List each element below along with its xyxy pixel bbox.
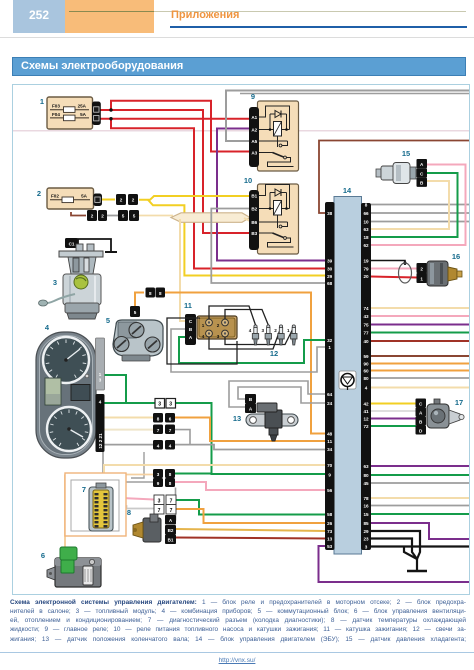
svg-text:68: 68 <box>327 281 333 286</box>
wire gray coolant sensor A stub <box>175 488 177 521</box>
wire gray crank sensor pin A loop to ECU pin 64 <box>229 381 325 407</box>
wire gray relay K10 pin B2 to ECU pin 68 <box>211 209 325 284</box>
screw top of block 5 <box>129 323 144 338</box>
svg-text:2: 2 <box>120 198 123 203</box>
AC pressure sensor 15 <box>376 169 382 177</box>
svg-text:63: 63 <box>363 464 369 469</box>
ECU logo icon <box>339 371 356 389</box>
svg-text:9: 9 <box>328 472 331 477</box>
fuse box 2 (cabin) <box>47 188 94 209</box>
diagnostic connector 7 inner box <box>71 480 119 531</box>
svg-text:C1: C1 <box>69 242 75 247</box>
connector pair 4-4 <box>153 440 163 450</box>
cluster LCD left <box>45 378 61 405</box>
wire purple ECU pin 12 to valve pin B <box>371 418 416 420</box>
relay K10 coil <box>259 208 274 210</box>
svg-text:25A: 25A <box>78 104 87 109</box>
wire black ECU pin 19 shield drain to sensor 16 <box>371 261 405 266</box>
connector pair 5-5 <box>118 210 128 221</box>
AC sensor 15 pins <box>417 159 428 168</box>
HV wire coil left detour <box>167 318 237 364</box>
svg-text:58: 58 <box>327 512 333 517</box>
relay K9 diode <box>270 113 287 115</box>
svg-text:A3: A3 <box>251 150 257 155</box>
wire black ECU pin 29b to ground <box>371 531 420 559</box>
svg-text:79: 79 <box>363 266 369 271</box>
ECU 14 right pin strip <box>361 203 371 550</box>
svg-text:90: 90 <box>363 361 369 366</box>
spark plugs 12 <box>254 325 257 328</box>
wire gray diagnostic connector to pair 7-7w <box>108 506 154 509</box>
HV wire coil tower 1 to spark plug 4 <box>209 306 256 325</box>
svg-text:74: 74 <box>363 306 369 311</box>
tachometer gauge <box>43 337 89 383</box>
svg-text:30: 30 <box>327 266 333 271</box>
svg-text:7: 7 <box>82 485 86 494</box>
svg-text:48: 48 <box>327 431 333 436</box>
relay K10 input loop <box>259 185 290 209</box>
wire pink ECU pin 43 to right edge <box>371 315 469 317</box>
relay K9 input loop <box>259 106 290 130</box>
wire beige ECU pin 74 to right edge <box>371 307 469 309</box>
wire red ECU pin 20 to sensor 16 pin 1 <box>371 277 417 278</box>
wire green ECU pin 77 to right edge <box>371 332 469 334</box>
wire orange connector 7-7w to ECU pin 26 <box>176 509 325 523</box>
wire red F03 feed to relay K9 pin A3 <box>111 101 258 152</box>
connector pair 3-8 <box>153 469 163 478</box>
svg-text:77: 77 <box>363 330 369 335</box>
svg-text:3: 3 <box>217 334 220 339</box>
svg-text:80: 80 <box>363 473 369 478</box>
svg-text:3: 3 <box>157 472 160 477</box>
svg-text:B6: B6 <box>251 220 257 225</box>
relay K10 diode <box>270 192 287 194</box>
svg-text:2: 2 <box>217 323 220 328</box>
wire gray ECU pin 10 to right edge <box>371 221 469 223</box>
connector pair 3-3 <box>155 399 165 409</box>
wire orange ECU pin 60 to right edge <box>371 370 469 372</box>
wire green ECU pin 18 loop to AC sensor pin C <box>371 173 458 237</box>
svg-text:1: 1 <box>40 97 44 106</box>
diagnostic connector 7 body <box>89 487 113 531</box>
svg-text:2: 2 <box>132 198 135 203</box>
wire beige ECU pin 63 loop to AC sensor pin B <box>371 181 449 229</box>
svg-text:8: 8 <box>149 291 152 296</box>
svg-text:3: 3 <box>365 544 368 549</box>
svg-text:85: 85 <box>363 521 369 526</box>
svg-text:12: 12 <box>363 416 369 421</box>
connector pair 7-7 white <box>154 505 164 515</box>
wire gray cluster bottom to connector 9-8 <box>103 452 153 482</box>
svg-text:13: 13 <box>233 414 241 423</box>
svg-text:7: 7 <box>170 498 173 504</box>
wire beige cluster to connector 8-6 <box>104 417 153 419</box>
svg-text:B2: B2 <box>168 528 174 533</box>
coolant temperature sensor 8 <box>143 518 161 542</box>
svg-text:4: 4 <box>99 400 102 405</box>
wire gray ignition coil pin B to ECU pin 1 <box>171 329 325 372</box>
page number box 252 <box>13 0 65 33</box>
wire pink ECU pin 62 loop to AC sensor pin A <box>371 165 466 246</box>
svg-text:4: 4 <box>365 385 368 390</box>
svg-text:20: 20 <box>363 274 369 279</box>
wire black ECU pin 3 to right edge and ground <box>371 545 469 547</box>
svg-text:2: 2 <box>37 189 41 198</box>
svg-text:5A: 5A <box>80 112 87 117</box>
svg-text:41: 41 <box>363 409 369 414</box>
svg-text:43: 43 <box>363 314 369 319</box>
svg-text:7: 7 <box>157 428 160 433</box>
svg-text:8: 8 <box>157 416 160 421</box>
wire red F04 to relay K9 pin A1 <box>99 118 258 120</box>
svg-text:2: 2 <box>101 214 104 219</box>
wire gray connector 4-4 to ECU pin 34 <box>175 445 325 450</box>
svg-text:7: 7 <box>158 508 161 514</box>
wire green ECU pin 80b to right edge <box>371 474 469 476</box>
shield ellipse around sensor 16 pair <box>399 263 412 283</box>
svg-text:23: 23 <box>363 536 369 541</box>
svg-text:A5: A5 <box>251 139 257 144</box>
wire green ignition coil pin A to ECU pin 32 <box>179 337 325 363</box>
svg-text:6: 6 <box>169 416 172 421</box>
svg-text:5: 5 <box>122 214 125 219</box>
wire pink diagnostic connector to connector 3-7 <box>112 498 154 500</box>
svg-text:56: 56 <box>327 488 333 493</box>
wire purple ECU pin 85 jog to right edge <box>371 523 469 539</box>
svg-text:40: 40 <box>363 339 369 344</box>
wire gray ECU pin 8 to right edge <box>371 204 469 206</box>
svg-text:5: 5 <box>134 310 137 315</box>
connector pair 7-7 <box>153 425 163 435</box>
svg-text:3: 3 <box>53 278 57 287</box>
svg-text:16: 16 <box>452 252 460 261</box>
svg-text:4: 4 <box>169 443 172 448</box>
relay K9 box <box>258 101 299 171</box>
svg-text:53: 53 <box>327 544 333 549</box>
connector pair 8-8 on orange wire <box>146 288 156 298</box>
svg-text:14: 14 <box>343 186 352 195</box>
svg-text:8: 8 <box>169 481 172 486</box>
svg-text:32: 32 <box>327 338 333 343</box>
wire green cluster tab 13 <box>105 374 128 376</box>
connector pair 2-2 on brown wire <box>87 210 97 221</box>
orange header bar <box>65 0 154 33</box>
svg-text:10: 10 <box>363 219 369 224</box>
fuel module 3 <box>76 244 83 253</box>
cluster warning lamp <box>85 374 88 377</box>
relay K10 pin strip <box>249 190 259 250</box>
HV wire coil tower 3 to spark plug 1 <box>225 327 294 345</box>
relay K9 coil <box>259 129 274 131</box>
fuse block 1 (engine bay) <box>47 97 93 129</box>
svg-text:26: 26 <box>327 521 333 526</box>
svg-text:1: 1 <box>328 345 331 350</box>
HV wire coil tower 2 to spark plug 3 <box>225 310 268 326</box>
diagram frame <box>13 85 470 595</box>
svg-text:16: 16 <box>363 503 369 508</box>
valve 17 body <box>434 399 440 406</box>
wire green connector pair row to junction <box>175 473 212 475</box>
svg-text:13: 13 <box>327 536 333 541</box>
wire brown ECU pin 38 loop to right edge <box>319 141 469 214</box>
svg-text:78: 78 <box>363 496 369 501</box>
wire red F04 branch to ECU pin 30 <box>111 119 325 269</box>
wire cream cluster to connector 7-7 <box>104 429 153 431</box>
svg-text:2: 2 <box>420 266 423 271</box>
svg-text:F03: F03 <box>52 104 60 109</box>
svg-text:3: 3 <box>169 402 172 408</box>
fuse block 1 output tabs <box>92 102 101 126</box>
ECU 14 body <box>334 197 362 555</box>
wire pink connector 9-8 to ECU pin 56 <box>175 482 325 490</box>
connector pin of block 5 <box>130 306 140 317</box>
instrument cluster 4 <box>36 332 96 458</box>
svg-text:B3: B3 <box>251 231 257 236</box>
svg-text:8: 8 <box>159 291 162 296</box>
svg-text:7: 7 <box>169 428 172 433</box>
wire beige bundle to relay K10 pin B6 <box>244 218 258 222</box>
svg-text:10: 10 <box>244 176 252 185</box>
wire green ECU pin 72 to valve pin D <box>371 425 416 427</box>
wire gray between 2-2 and 5-5 connectors <box>107 215 118 217</box>
svg-text:A1: A1 <box>251 115 257 120</box>
svg-text:12: 12 <box>270 349 278 358</box>
wire red F03 to relay K10 pin B3 <box>99 110 258 233</box>
svg-text:5: 5 <box>133 214 136 219</box>
section title bar <box>12 57 466 76</box>
screw bottom-left of block 5 <box>114 337 129 352</box>
svg-text:4: 4 <box>157 443 160 448</box>
ignition coil 11 <box>197 316 237 339</box>
wire gray connector 7-7 right side down <box>175 430 190 445</box>
wire yellow branch to ECU pin 29 <box>148 200 325 276</box>
relay K9 pin strip <box>249 107 259 167</box>
svg-text:A2: A2 <box>251 127 257 132</box>
connector pair 9-8 <box>153 478 163 487</box>
svg-text:59: 59 <box>363 354 369 359</box>
svg-text:38: 38 <box>327 211 333 216</box>
svg-text:1: 1 <box>287 328 290 333</box>
screw of unit 6 <box>89 559 94 564</box>
fuel gauge sender on module <box>74 275 88 289</box>
caption <box>10 598 466 644</box>
svg-text:73: 73 <box>327 529 333 534</box>
svg-text:4: 4 <box>45 323 50 332</box>
wire beige diagnostic connector to ECU pin 70 <box>104 465 325 487</box>
wire gray cluster to connector 4-4 <box>104 444 153 446</box>
svg-text:15: 15 <box>402 149 410 158</box>
float arm of fuel module <box>44 294 75 303</box>
svg-text:6: 6 <box>41 551 45 560</box>
svg-text:17: 17 <box>455 398 463 407</box>
svg-text:5A: 5A <box>81 193 88 198</box>
relay K10 box <box>258 184 299 254</box>
svg-text:39: 39 <box>327 258 333 263</box>
label C1 fuel module connector <box>65 238 78 248</box>
svg-text:29: 29 <box>363 529 369 534</box>
svg-text:5: 5 <box>106 316 110 325</box>
svg-text:29: 29 <box>327 274 333 279</box>
svg-text:F02: F02 <box>51 193 59 198</box>
ECU 14 left pin strip <box>325 202 335 550</box>
junction dot J1 <box>109 108 112 111</box>
wire bundle marker (flattened hexagon) on harness to K10 <box>139 215 173 217</box>
green button of unit 6 <box>61 560 74 573</box>
svg-text:3: 3 <box>158 402 161 408</box>
wire gray ECU pin 66 to right edge <box>371 212 469 214</box>
wire purple ECU pin 63b to right edge <box>371 465 469 467</box>
wire orange commutation block to ECU pin 48 <box>135 293 144 307</box>
wire peach connector 3-8 to HVAC unit 6 <box>126 474 153 476</box>
wire gray ECU pin 45 to right edge <box>371 482 469 484</box>
scan artifact faint line <box>13 130 469 132</box>
svg-text:24: 24 <box>327 401 333 406</box>
svg-text:7: 7 <box>170 508 173 514</box>
wire gray second top line <box>240 93 469 95</box>
svg-text:66: 66 <box>363 211 369 216</box>
wire orange coolant sensor B2 to ECU pin 73 <box>176 529 325 531</box>
svg-text:2: 2 <box>274 328 277 333</box>
wire green connector 3-7 to ECU pin 58 <box>176 500 325 515</box>
svg-text:1: 1 <box>420 276 423 281</box>
svg-text:18: 18 <box>363 235 369 240</box>
wire gray crank sensor pin B loop to ECU pin 24 <box>238 387 325 403</box>
commutation block 5 <box>113 320 163 356</box>
connector pair 8-6 <box>153 413 163 423</box>
svg-text:B1: B1 <box>168 538 174 543</box>
wire beige ECU pin 78 to right edge <box>371 497 469 499</box>
wire brown ECU pin 59 to right edge <box>371 355 469 357</box>
wire yellow ECU pin 42 to valve pin C <box>371 403 416 405</box>
wire yellow F02 to relay K10 pin B1 <box>102 199 115 201</box>
relay K10 switch <box>277 215 279 228</box>
junction dot J2 <box>109 117 112 120</box>
wire purple relay K9 pin A2 to ECU pin 39 <box>217 129 325 261</box>
cluster connector strip black <box>96 394 105 452</box>
wire white ECU pin 41 to valve pin A <box>371 410 416 412</box>
diagnostic connector 7 outer box <box>65 473 126 536</box>
wire pink ECU pin 79 to sensor 16 pin 2 <box>371 268 417 270</box>
screw bottom-right of block 5 <box>145 337 160 352</box>
wire purple ECU pin 53 loop to bottom right edge <box>319 546 470 582</box>
svg-text:1: 1 <box>202 323 205 328</box>
svg-text:62: 62 <box>363 243 369 248</box>
fuse box 2 output tab <box>93 194 102 207</box>
svg-text:11: 11 <box>327 439 332 444</box>
wire purple ECU pin 75 to right edge <box>371 324 469 326</box>
wire gray ECU pin 16 to right edge <box>371 505 469 507</box>
svg-text:19: 19 <box>363 258 369 263</box>
svg-text:9: 9 <box>251 92 255 101</box>
crank sensor 13 pins <box>245 394 256 404</box>
svg-text:63: 63 <box>363 227 369 232</box>
svg-text:70: 70 <box>327 463 333 468</box>
wire beige ECU pin 4 to right edge <box>371 387 469 389</box>
wire beige branch down to ignition coil pin C <box>180 219 186 321</box>
wire gray ECU pin 80 to right edge <box>371 377 469 379</box>
wire black fuel module ground strap <box>78 239 111 252</box>
cluster side tab gray <box>96 338 105 390</box>
header word <box>171 9 239 21</box>
ignition coil 11 pin strip <box>185 314 196 345</box>
bracket of unit 6 <box>47 567 55 580</box>
wire orange ECU pin 90 to right edge <box>371 363 469 365</box>
wire dark red ECU pin 40 to right edge <box>371 340 469 342</box>
wire orange connector 8-6 to ECU pin 11 <box>175 418 325 442</box>
svg-text:F04: F04 <box>52 112 60 117</box>
wire dark red coolant sensor B1 to ECU pin 13 <box>176 538 325 539</box>
svg-text:2: 2 <box>91 214 94 219</box>
HVAC control unit 6 <box>55 558 101 587</box>
wire black ECU pin 23 to ground <box>371 539 417 560</box>
svg-text:12 2 21: 12 2 21 <box>98 433 103 449</box>
svg-text:4: 4 <box>249 328 252 333</box>
white connector of unit 6 <box>83 566 93 585</box>
wire green ECU pin 15 to right edge <box>371 513 469 515</box>
svg-text:3: 3 <box>158 498 161 504</box>
svg-text:75: 75 <box>363 322 369 327</box>
svg-text:9: 9 <box>157 481 160 486</box>
HV wire coil tower 4 to spark plug 2 <box>209 327 281 349</box>
connector pair 3-7 white <box>154 495 164 505</box>
svg-text:15: 15 <box>363 512 369 517</box>
oil pressure sensor 16 <box>417 263 428 273</box>
svg-text:8: 8 <box>365 202 368 207</box>
wire gray relay K9 pin A5 over top to right edge <box>226 91 469 142</box>
coolant sensor 8 pins <box>165 515 176 525</box>
svg-text:72: 72 <box>363 424 369 429</box>
svg-text:B1: B1 <box>251 193 257 198</box>
idle air control valve 17 <box>416 399 427 408</box>
svg-text:11: 11 <box>184 301 192 310</box>
wire gray stub loop near cluster <box>131 452 144 478</box>
ground symbol GND1 <box>416 557 418 570</box>
svg-text:8: 8 <box>169 472 172 477</box>
speedometer gauge <box>47 407 91 451</box>
wire brown fuse block C1 row <box>71 212 86 216</box>
svg-text:3: 3 <box>262 328 265 333</box>
svg-text:60: 60 <box>363 368 369 373</box>
svg-text:45: 45 <box>363 481 369 486</box>
svg-text:80: 80 <box>363 376 369 381</box>
svg-text:B2: B2 <box>251 206 257 211</box>
wire green cluster to connector 3-3 to ECU pin 9 <box>101 402 156 404</box>
crankshaft position sensor 13 <box>246 414 298 426</box>
cluster LCD right <box>71 385 90 401</box>
svg-text:8: 8 <box>127 508 131 517</box>
svg-text:34: 34 <box>327 447 333 452</box>
svg-text:64: 64 <box>327 392 333 397</box>
svg-text:4: 4 <box>202 334 205 339</box>
svg-text:42: 42 <box>363 401 369 406</box>
green connector tab of unit 6 <box>60 547 77 560</box>
connector pair 2-2 on yellow wire <box>116 194 126 205</box>
relay K9 switch <box>277 136 279 147</box>
